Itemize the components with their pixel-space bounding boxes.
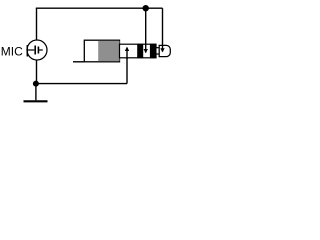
terminal arrow: tip — [160, 45, 164, 53]
ground — [24, 84, 48, 102]
wire: sleeve riser — [126, 49, 128, 84]
connector J1 insulator band 1 — [137, 44, 143, 58]
connector J1 insulator band 2 — [150, 44, 156, 58]
node: top junction — [143, 5, 149, 11]
wire: body stub — [73, 61, 84, 63]
connector J1 sleeve shaft — [120, 44, 157, 58]
terminal arrow: ring — [144, 44, 148, 54]
node: ground junction — [33, 81, 39, 87]
svg-text:MIC: MIC — [1, 45, 23, 59]
wire: mic top lead — [36, 8, 38, 40]
wire: tip drop — [162, 8, 164, 50]
wire: mic bottom lead — [36, 60, 38, 84]
wire: bottom horizontal run — [36, 83, 127, 85]
wire: ring drop — [145, 8, 147, 51]
wire: top horizontal run — [36, 7, 163, 9]
terminal arrow: sleeve — [125, 47, 129, 59]
microphone MIC — [27, 40, 47, 60]
connector J1 plug body — [84, 40, 119, 62]
connector J1 tip neck — [156, 48, 160, 54]
connector J1 tip — [159, 45, 170, 56]
